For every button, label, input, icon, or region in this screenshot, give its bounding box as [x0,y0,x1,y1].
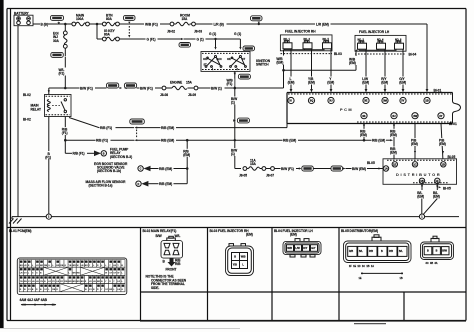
wire label B/W (F1) [140,85,163,91]
svg-text:W: W [117,273,119,275]
svg-text:LB: LB [56,281,59,283]
svg-text:B/W (1): B/W (1) [211,86,222,90]
svg-text:P/B: P/B [389,250,393,253]
ignition switch bottom output wire [234,71,236,168]
scan edge black strip [0,0,4,328]
svg-text:G (1): G (1) [197,37,204,41]
svg-text:R/B (F1): R/B (F1) [100,126,112,130]
table header BI-05 DISTRIBUTOR(EM) [341,229,378,233]
node: ground circle 2 [46,214,51,219]
PCM grid arrow scale [21,304,57,306]
connector box B-08 at switch top right [243,46,255,51]
node: G wire split to ignition switch [209,32,217,50]
svg-text:BR: BR [20,265,24,267]
injector NO.3 [303,38,312,49]
svg-text:SIDE.: SIDE. [151,286,159,290]
distributor connector scale line [359,272,404,280]
svg-text:4AM 4AJ 4AF 4AB: 4AM 4AJ 4AF 4AB [20,298,48,302]
svg-text:4W: 4W [413,114,418,118]
svg-text:YB: YB [40,281,43,283]
svg-text:R/B: R/B [175,262,181,266]
fuse MAIN 100A [65,13,97,26]
node: rail junction before BTN fuse [96,23,99,26]
svg-text:W: W [85,289,87,291]
svg-text:100A: 100A [76,17,84,21]
svg-text:1E: 1E [359,277,362,280]
wire label L/R (B) [213,21,317,27]
table header BI-03 FUEL INJECTOR RH [210,229,253,237]
svg-text:80A: 80A [106,17,113,21]
PCM grid cells [19,260,125,292]
connector box B-13 with arrow on switch vertical [233,118,249,123]
svg-text:LB: LB [113,265,116,267]
fuse IG KEY 80A on branch [97,24,119,41]
svg-text:BI-01 PCM(EM): BI-01 PCM(EM) [9,229,31,233]
connector box B-03 on rail [124,15,136,23]
svg-text:RB: RB [24,281,28,283]
svg-text:J8-03: J8-03 [194,30,202,34]
svg-text:LB: LB [117,289,120,291]
svg-text:LB: LB [81,265,84,267]
svg-text:ENGINE: ENGINE [170,80,183,84]
mass air flow sensor branch [86,180,188,188]
svg-text:(EM): (EM) [276,61,283,65]
svg-text:ACC: ACC [217,58,223,61]
svg-text:BI-05: BI-05 [448,155,456,159]
wire label W/B (F1) left of switch output [226,79,234,87]
distributor main connector view [344,235,412,268]
svg-text:(EM): (EM) [381,80,388,84]
svg-text:LB: LB [36,281,39,283]
fuel injector LH bank box [355,30,406,51]
svg-text:W/B: W/B [287,247,292,250]
connector BI-03 dashed edge [281,52,342,56]
svg-text:C: C [140,168,142,171]
svg-text:(F1): (F1) [45,155,51,159]
wire2 R/B (EM) main run [134,137,393,143]
distributor small connector view [421,236,454,265]
svg-text:3I: 3I [289,99,292,103]
svg-text:W: W [77,265,79,267]
svg-text:BR: BR [109,289,113,291]
svg-text:FUEL INJECTOR LH: FUEL INJECTOR LH [359,30,390,34]
svg-text:B/L: B/L [399,250,403,253]
svg-text:(1): (1) [231,152,235,156]
LH injector connector view [283,239,321,257]
svg-text:ON: ON [227,58,231,61]
wire2 R/B (F1) segment from relay drop [65,137,134,143]
svg-text:1F: 1F [436,179,440,183]
injector NO.4 [377,39,386,50]
svg-text:BI-02 MAIN RELAY(F1): BI-02 MAIN RELAY(F1) [143,229,177,233]
PCM connector pinout grid [17,258,127,295]
FRONT direction arrow [166,258,177,272]
svg-text:15A: 15A [250,162,257,166]
LH bank internal bus wire [356,49,396,56]
connector box pair on B/W wire [107,83,141,89]
PCM bottom pins [361,113,444,119]
PCM bottom pin exit arrows and stubs [363,124,443,162]
svg-text:G/Y: G/Y [311,247,316,250]
svg-text:RB: RB [52,289,56,291]
injector NO.5 [323,38,332,49]
svg-text:R/B (EM): R/B (EM) [161,139,174,143]
node: PCM 4S junction [363,139,366,142]
svg-text:(SECTION B-1a): (SECTION B-1a) [89,184,113,188]
injector NO.1 [283,38,292,49]
svg-text:G (1): G (1) [234,32,241,36]
svg-text:1B: 1B [420,179,424,183]
svg-text:(EM): (EM) [327,80,334,84]
wire label B/W (1) on switch vertical [231,97,239,105]
table header BI-01 PCM(EM) [9,229,31,233]
svg-text:R/B: R/B [349,250,353,253]
wire label B/W (EM) [352,161,385,172]
svg-text:(EM): (EM) [411,142,418,146]
table frame [7,228,466,321]
fuse BTN 80A [97,13,145,26]
battery B+ [14,12,33,26]
svg-text:OFF: OFF [203,58,208,61]
svg-text:4U: 4U [392,114,396,118]
svg-text:B/W (EM): B/W (EM) [352,167,366,171]
svg-text:LR: LR [20,273,23,275]
svg-text:BI-03: BI-03 [334,52,342,56]
svg-text:B: B [381,250,383,253]
scan artifact: darker bottom rule right half [0,321,466,328]
svg-text:3C 3B 3A: 3C 3B 3A [426,262,438,265]
svg-text:B: B [234,255,236,258]
svg-text:B/W: B/W [442,250,447,253]
svg-text:1F 1E 1D 1C 1B 1A: 1F 1E 1D 1C 1B 1A [349,265,374,268]
LH injector signal wires to PCM [366,49,403,90]
wire label W/B (EM) LH feed [349,57,357,70]
wire label W/B (F1) on rail [144,21,170,27]
svg-text:B/L: B/L [359,250,363,253]
wire G(F1) from IG KEY fuse [119,36,196,42]
fuse ENGINE 15A with JB-08 JB-09 [160,80,211,97]
svg-text:(F1): (F1) [59,71,65,75]
dashed link between R/B wires at B-09 [136,130,138,139]
svg-text:J8-09: J8-09 [188,93,196,97]
svg-text:(EM): (EM) [390,133,397,137]
relay output R/B(F1) vertical [62,117,70,154]
svg-text:15A: 15A [186,80,193,84]
svg-text:30A: 30A [53,39,60,43]
svg-text:J8-05: J8-05 [239,173,247,177]
node: EGR junction on sensor riser [183,140,191,184]
RH injector signal wires to PCM [291,49,331,91]
svg-text:BR: BR [81,281,85,283]
wire from ignition to J8 fuse [235,168,241,170]
node: W/B junction [282,69,356,72]
svg-text:1: 1 [421,216,423,219]
svg-text:B/W (F1): B/W (F1) [80,86,93,90]
svg-text:SWITCH: SWITCH [256,63,269,67]
ignition switch U-IGN [201,52,250,72]
svg-text:BI-04: BI-04 [409,53,417,57]
svg-text:B/W: B/W [156,234,163,238]
svg-text:3U: 3U [329,99,333,103]
svg-text:80A: 80A [104,33,111,37]
svg-text:J8-02: J8-02 [167,30,175,34]
svg-text:RB: RB [77,273,81,275]
svg-text:FUEL INJECTOR RH: FUEL INJECTOR RH [285,30,316,34]
node: ground circle 1 [419,214,424,219]
wire R/B (EM) into distributor pin [390,147,398,155]
node: B/W crosses W/L [64,87,67,90]
svg-text:L/W: L/W [295,247,300,250]
svg-text:R/B (EM): R/B (EM) [372,139,385,143]
svg-text:B: B [436,250,438,253]
svg-text:BR: BR [73,265,77,267]
svg-text:BR: BR [69,281,73,283]
svg-text:LR: LR [89,281,92,283]
svg-text:P/B: P/B [369,250,373,253]
svg-text:RELAY: RELAY [31,107,42,111]
node: sensor branch junction [186,139,189,142]
connector box below G wire [179,43,191,48]
wire battery to rail, label B(B) [33,22,65,26]
svg-text:J8-08: J8-08 [160,93,168,97]
svg-text:1D: 1D [442,162,446,166]
connector box B-13 above rail [251,16,263,25]
RH injector connector view [226,244,254,276]
connector box B-07 on B/W wire [299,166,331,171]
node: switch vertical crosses R/B wire [234,139,236,141]
svg-text:(EM): (EM) [183,153,190,157]
svg-text:BR: BR [73,273,77,275]
wire label B/W (1) [211,85,284,91]
svg-text:PCM: PCM [340,107,353,112]
distributor top pins [392,162,446,167]
svg-text:(EM): (EM) [433,195,440,199]
wire1 R/B (EM) to PCM [134,124,287,131]
wire B/W(F1) horizontal to relay [48,85,107,95]
svg-text:1A: 1A [384,167,388,171]
svg-text:R/B (EM): R/B (EM) [161,126,174,130]
svg-text:BI-01: BI-01 [434,89,442,93]
svg-text:BR: BR [73,281,77,283]
svg-text:LB: LB [32,281,35,283]
svg-text:B/W (F1): B/W (F1) [281,167,294,171]
svg-text:D: D [138,183,140,186]
svg-text:B: B [427,250,429,253]
svg-text:FRONT: FRONT [166,268,177,272]
wire R/B label above wire2 at PCM drop [360,129,398,137]
svg-text:BI-01: BI-01 [449,122,457,126]
svg-text:(EM): (EM) [399,80,406,84]
svg-text:(EM): (EM) [308,80,315,84]
svg-text:LR: LR [24,265,27,267]
PCM box U-PCM [287,89,461,127]
chassis ground symbol [9,217,22,224]
svg-text:3M: 3M [383,99,388,103]
distributor left pin with B/W entry [379,166,389,171]
svg-text:LB: LB [93,281,96,283]
svg-text:RB: RB [60,265,64,267]
svg-text:J8-07: J8-07 [266,173,274,177]
ground rail wire [12,216,459,218]
svg-text:YB: YB [20,281,23,283]
svg-text:BR: BR [40,265,44,267]
svg-text:W: W [105,273,107,275]
svg-text:(EM): (EM) [417,195,424,199]
wire label B/W (F1) to distributor [281,166,300,172]
svg-text:(EM): (EM) [246,233,253,237]
svg-text:1E: 1E [393,162,397,166]
wire label G (1) [196,36,241,42]
svg-text:R/B (EM): R/B (EM) [159,167,172,171]
svg-text:(EM): (EM) [439,142,446,146]
wire into ignition switch right terminal [234,32,242,50]
svg-text:B: B [163,260,166,264]
fuse 15A J8-05 J8-07 [239,158,281,177]
svg-text:ST: ST [242,58,246,61]
wire labels L/Y-B/Y under RH bank [288,77,336,85]
svg-text:W: W [24,289,26,291]
table header BI-04 FUEL INJECTOR LH [274,229,313,237]
svg-text:BR: BR [56,265,60,267]
wire label W/B (EM) RH feed [276,57,284,89]
svg-text:(EM): (EM) [290,233,297,237]
svg-text:3E: 3E [364,99,368,103]
svg-text:R/B (F1): R/B (F1) [96,139,108,143]
svg-text:RB: RB [64,281,68,283]
svg-text:L/R (B): L/R (B) [214,22,224,26]
wire label B/W (1) lower [231,148,239,156]
svg-text:4S: 4S [362,114,366,118]
svg-text:W/B (F1): W/B (F1) [145,22,158,26]
distributor bottom pins [419,178,451,190]
fuse EGI INJ 30A (vertical) [53,24,67,88]
wire P/B (EM) PCM to distributor [411,138,447,154]
connector box B-01 [51,15,64,24]
svg-text:BI-05: BI-05 [443,186,451,190]
relay output B(F1) to ground [45,117,53,215]
connector box B-10 below switch [238,74,250,79]
wire labels under LH bank [362,77,408,85]
label FUEL PUMP RELAY [110,148,132,159]
svg-text:(EM): (EM) [288,80,295,84]
svg-text:R/Y: R/Y [303,247,307,250]
svg-text:(F1): (F1) [62,131,68,135]
svg-text:R/B (F1): R/B (F1) [73,152,85,156]
svg-text:BR: BR [97,281,101,283]
injector NO.6 [395,39,404,50]
svg-text:BI-02: BI-02 [23,93,31,97]
svg-text:YB: YB [69,265,72,267]
fuel injector RH bank box [280,30,332,51]
svg-text:1B: 1B [400,277,403,280]
svg-text:15A: 15A [182,17,189,21]
connector BI-04 dashed edge [355,53,416,57]
connector BI-02 labels at relay [23,93,31,122]
node: R/B junction to wire2 [64,139,67,142]
svg-text:1B: 1B [425,99,429,103]
main relay connector view [156,234,183,258]
svg-text:(SECTION B-1b): (SECTION B-1b) [97,169,121,173]
svg-text:R/B (EM): R/B (EM) [283,139,296,143]
svg-text:BI-02: BI-02 [23,118,31,122]
svg-text:(EM): (EM) [390,151,397,155]
svg-text:R/B (EM): R/B (EM) [159,182,172,186]
relay diagonal output R/B(F1) [69,118,134,131]
svg-text:BI-05 DISTRIBUTOR(EM): BI-05 DISTRIBUTOR(EM) [341,229,378,233]
svg-text:B (B): B (B) [41,22,49,26]
svg-text:2: 2 [48,216,50,219]
svg-text:L/R (EM): L/R (EM) [316,22,329,26]
node: switch wire joins B/W rail [234,87,237,90]
PCM top pins [288,97,430,103]
svg-text:BI-05: BI-05 [367,161,375,165]
label IGNITION SWITCH [256,59,271,67]
svg-text:RB: RB [44,265,48,267]
connector box B-02 on W/L wire [51,52,67,57]
wire label L/R (EM) on top rail [315,21,427,91]
table header BI-02 MAIN RELAY(F1) [143,229,177,233]
svg-text:B: B [103,152,105,155]
svg-text:(EM): (EM) [362,80,369,84]
svg-text:(EM): (EM) [360,133,367,137]
svg-text:(F1): (F1) [227,82,233,86]
battery ground vertical [17,26,19,217]
svg-text:LR: LR [48,281,51,283]
injector NO.2 [358,39,367,50]
svg-text:1C: 1C [413,162,417,166]
distributor ground wires B/L [417,184,441,214]
PCM top pin entry arrows [290,89,429,92]
svg-text:DISTRIBUTOR: DISTRIBUTOR [396,172,441,177]
wire label W/L (F1) [58,68,68,76]
RH bank internal bus wire [284,49,325,56]
connector note text [146,275,187,290]
fuel pump relay branch [65,150,106,156]
svg-text:W/B: W/B [241,255,246,258]
svg-text:BR: BR [77,281,81,283]
svg-text:4Y: 4Y [439,114,443,118]
svg-text:(EM): (EM) [349,61,356,65]
svg-text:G (1): G (1) [209,32,216,36]
dashed link B-03 down to G wire [128,26,130,38]
PCM grid row labels 4AM 4AJ 4AF 4AB [20,298,48,302]
svg-text:BR: BR [85,265,89,267]
svg-text:BI-03 FUEL INJECTOR RH: BI-03 FUEL INJECTOR RH [210,229,250,233]
svg-text:Y/B: Y/B [233,263,237,266]
fuse ROOM 15A with JB-02 JB-03 [167,13,213,33]
svg-text:(SECTION B-3): (SECTION B-3) [110,155,132,159]
EGR boost sensor solenoid valve branch [94,162,187,173]
distributor box [383,155,457,184]
main relay K1 [31,95,72,117]
svg-text:LR: LR [117,281,120,283]
svg-text:(1): (1) [231,101,235,105]
svg-text:3Q: 3Q [310,99,315,103]
svg-text:LR: LR [36,265,39,267]
svg-text:G (F1): G (F1) [147,37,156,41]
node: rail junction at EGI fuse [64,23,67,26]
svg-text:ST: ST [204,63,208,66]
main relay connector labels below [163,259,182,267]
connector box C-11 on B/W wire [331,166,352,171]
svg-text:3Y: 3Y [401,99,405,103]
svg-text:B/W (F1): B/W (F1) [140,86,153,90]
connector B-09 box over R/B wires [130,119,145,124]
